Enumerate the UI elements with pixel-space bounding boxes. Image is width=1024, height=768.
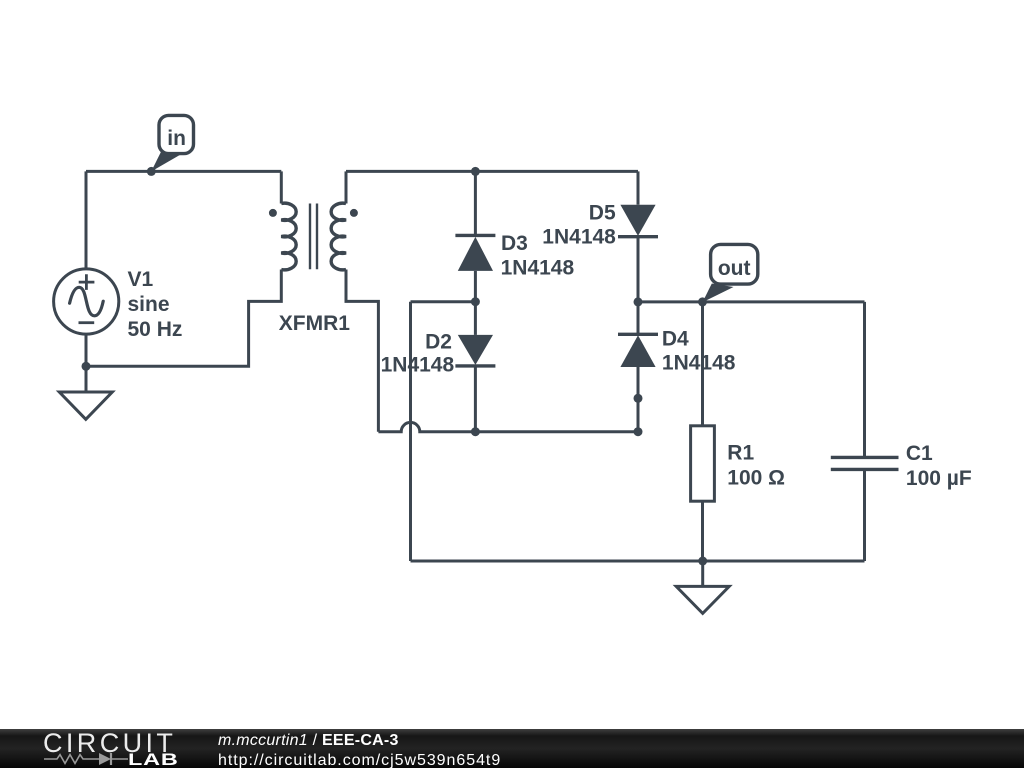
wire mid vertical (to bottom rail) [409, 302, 412, 561]
node ground junction dot [698, 557, 707, 566]
svg-text:1N4148: 1N4148 [381, 354, 455, 377]
footer credit text [218, 733, 399, 749]
footer url text [218, 753, 501, 768]
wire mid-right horizontal [638, 300, 865, 303]
phase dot primary [269, 209, 277, 217]
svg-text:100 µF: 100 µF [906, 467, 972, 490]
svg-text:D5: D5 [589, 202, 616, 225]
diode D4 [618, 302, 658, 432]
diode D3 [455, 171, 495, 301]
flag out [703, 244, 758, 302]
ground (left, V1) [59, 392, 112, 419]
svg-text:R1: R1 [727, 441, 754, 464]
svg-text:50 Hz: 50 Hz [128, 318, 183, 341]
core bars [310, 204, 317, 270]
svg-text:1N4148: 1N4148 [662, 352, 736, 375]
label D4 1N4148 [662, 327, 736, 374]
node D4 bottom dot [634, 394, 643, 403]
node D2 bottom junction dot [471, 427, 480, 436]
wire mid-left horizontal [411, 300, 476, 303]
flag in [151, 115, 193, 171]
node in junction dot [147, 167, 156, 176]
svg-text:sine: sine [128, 293, 170, 316]
wire secondary top vertical [345, 171, 348, 203]
svg-text:C1: C1 [906, 442, 933, 465]
label D5 1N4148 [542, 202, 616, 249]
svg-text:in: in [167, 127, 186, 150]
wire primary top vertical [280, 171, 283, 203]
label D2 1N4148 [381, 331, 455, 377]
wire top-left horizontal (V1 to XFMR1 primary) [86, 170, 281, 173]
svg-text:V1: V1 [128, 268, 154, 291]
svg-text:D3: D3 [501, 232, 528, 255]
node D5-D4 junction dot [634, 297, 643, 306]
wire ground stub [701, 561, 704, 586]
primary winding [281, 203, 296, 270]
secondary winding [331, 203, 346, 270]
node rail right end dot [634, 427, 643, 436]
label C1 100 uF [906, 442, 972, 490]
svg-text:XFMR1: XFMR1 [279, 312, 350, 335]
wire top horizontal (secondary to D5) [346, 170, 638, 173]
ground (right, output) [676, 586, 729, 613]
logo LAB [128, 750, 179, 768]
label D3 1N4148 [501, 232, 575, 280]
svg-text:D4: D4 [662, 327, 689, 350]
wire bottom rail [411, 560, 865, 563]
svg-text:D2: D2 [425, 331, 452, 354]
logo resistor-diode doodle [40, 750, 135, 768]
voltage source V1 [54, 269, 119, 334]
label V1 sine 50 Hz [128, 268, 183, 341]
node V1 ground junction dot [82, 362, 91, 371]
phase dot secondary [350, 209, 358, 217]
label R1 100 Ohm [727, 441, 785, 489]
transformer XFMR1 [269, 171, 358, 269]
wire V1 bottom vertical [85, 334, 88, 392]
svg-text:out: out [718, 257, 751, 280]
wire secondary bottom jog to rail [346, 270, 378, 432]
wire rail with hop over mid vertical [378, 422, 638, 431]
svg-text:1N4148: 1N4148 [542, 225, 616, 248]
footer bar [0, 729, 1024, 768]
wire XFMR1 primary bottom return to V1 [86, 270, 281, 367]
node D3-D2 junction dot [471, 297, 480, 306]
node out junction dot [698, 297, 707, 306]
wire V1 top vertical [85, 171, 88, 268]
capacitor C1 [831, 302, 899, 561]
diode D2 [455, 302, 495, 432]
node D3 top junction dot [471, 167, 480, 176]
svg-text:1N4148: 1N4148 [501, 257, 575, 280]
logo CIRCUIT [43, 730, 176, 757]
diode D5 [618, 171, 658, 302]
resistor R1 [691, 302, 715, 561]
svg-text:100 Ω: 100 Ω [727, 467, 785, 490]
